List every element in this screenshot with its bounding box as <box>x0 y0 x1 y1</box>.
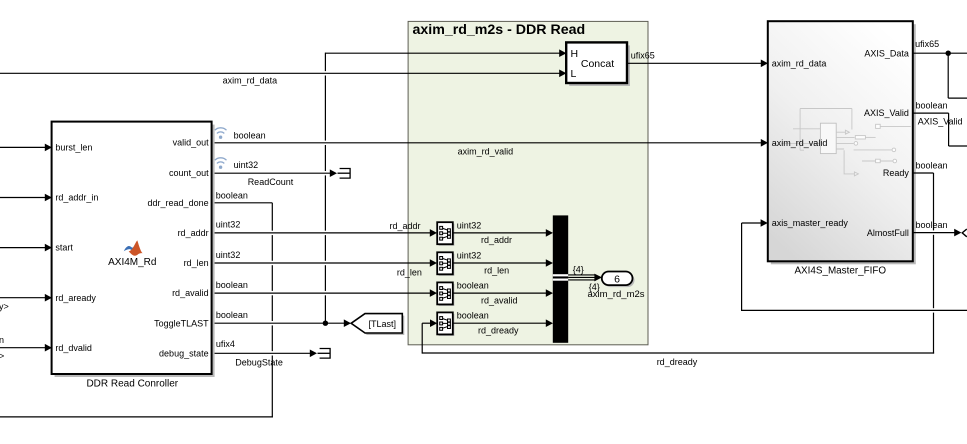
svg-text:ddr_read_done: ddr_read_done <box>148 198 209 208</box>
wire axim_rd_data into Concat L <box>0 70 566 86</box>
signal conversion block rd_len (U-conv2) <box>437 252 454 275</box>
viewer icon DebugState <box>318 349 331 359</box>
bus creator bar <box>553 215 568 342</box>
svg-text:Ready: Ready <box>883 168 910 178</box>
svg-text:uint32: uint32 <box>457 221 482 231</box>
wire AXIS_Data out with branch <box>913 39 967 98</box>
wire rd_dready back to conv4 <box>422 319 934 367</box>
svg-text:AXIS_Valid: AXIS_Valid <box>864 108 909 118</box>
svg-text:boolean: boolean <box>457 281 489 291</box>
svg-text:axim_rd_valid: axim_rd_valid <box>772 138 828 148</box>
MATLAB function icon AXI4M_Rd <box>108 240 156 267</box>
area axim_rd_m2s - DDR Read <box>408 21 648 344</box>
streaming badge count_out <box>215 158 227 169</box>
svg-text:boolean: boolean <box>216 280 248 290</box>
svg-text:rd_dvalid: rd_dvalid <box>55 343 92 353</box>
svg-text:boolean: boolean <box>916 160 948 170</box>
svg-text:axim_rd_valid: axim_rd_valid <box>458 147 514 157</box>
svg-text:rd_avalid: rd_avalid <box>172 288 209 298</box>
svg-text:AXIS_Valid: AXIS_Valid <box>918 117 963 127</box>
wire count_out to ReadCount viewer <box>212 169 337 177</box>
svg-text:rd_dready: rd_dready <box>478 326 519 336</box>
svg-text:uint32: uint32 <box>457 251 482 261</box>
wire ddr_read_done down and left <box>0 191 273 418</box>
svg-text:L: L <box>571 68 577 80</box>
block DDR Read Conroller <box>52 122 215 377</box>
wire rd_len <box>212 250 437 278</box>
svg-text:6: 6 <box>614 273 620 285</box>
wire burst_len input <box>0 144 52 152</box>
svg-text:Concat: Concat <box>581 58 614 70</box>
svg-text:valid_out: valid_out <box>173 138 210 148</box>
svg-text:boolean: boolean <box>234 131 266 141</box>
svg-text:AXI4M_Rd: AXI4M_Rd <box>108 257 156 268</box>
svg-text:debug_state: debug_state <box>159 348 209 358</box>
svg-text:rd_avalid: rd_avalid <box>481 295 518 305</box>
svg-text:ufix4: ufix4 <box>216 339 235 349</box>
svg-text:n: n <box>0 335 4 345</box>
wire ToggleTLAST to From tag <box>212 310 351 327</box>
wire rd_dvalid input <box>0 335 52 361</box>
svg-text:ToggleTLAST: ToggleTLAST <box>154 318 209 328</box>
svg-text:rd_aready: rd_aready <box>55 293 96 303</box>
wire Concat output to FIFO axim_rd_data <box>627 50 768 67</box>
svg-text:count_out: count_out <box>169 168 209 178</box>
wire conv4 to bus <box>453 319 553 335</box>
svg-text:rd_addr_in: rd_addr_in <box>55 193 98 203</box>
wire AXIS_Valid out <box>913 101 967 146</box>
wire start input <box>0 244 52 252</box>
svg-text:boolean: boolean <box>916 101 948 111</box>
wire axis_master_ready feedback <box>742 219 967 311</box>
wire Ready down to rd_dready <box>913 160 948 353</box>
svg-text:DDR Read Conroller: DDR Read Conroller <box>86 379 178 390</box>
From tag [TLast] <box>351 314 404 335</box>
svg-text:rd_len: rd_len <box>397 268 422 278</box>
wire conv3 to bus <box>453 289 553 305</box>
svg-text:rd_addr: rd_addr <box>481 235 512 245</box>
svg-text:rd_addr: rd_addr <box>178 228 209 238</box>
bus wire to goto 6 <box>568 265 645 301</box>
junction dot TLast branch <box>323 321 328 326</box>
svg-text:axim_rd_data: axim_rd_data <box>223 76 278 86</box>
wire valid_out to axim_rd_valid <box>212 139 768 157</box>
svg-text:rd_len: rd_len <box>484 265 509 275</box>
svg-text:rd_addr: rd_addr <box>390 221 421 231</box>
svg-text:start: start <box>55 243 73 253</box>
streaming badge valid_out <box>215 128 227 139</box>
svg-text:burst_len: burst_len <box>55 143 92 153</box>
wire conv1 to bus <box>453 229 553 245</box>
svg-text:boolean: boolean <box>457 311 489 321</box>
svg-text:H: H <box>571 48 579 60</box>
svg-text:axis_master_ready: axis_master_ready <box>772 218 849 228</box>
svg-text:ufix65: ufix65 <box>631 50 655 60</box>
block AXI4S_Master_FIFO <box>768 21 916 264</box>
signal conversion block rd_dready (U-conv4) <box>437 312 454 336</box>
svg-text:[TLast]: [TLast] <box>369 319 397 329</box>
wire conv2 to bus <box>453 259 553 275</box>
svg-text:AXI4S_Master_FIFO: AXI4S_Master_FIFO <box>794 266 886 277</box>
wire rd_addr <box>212 220 437 237</box>
svg-text:ReadCount: ReadCount <box>248 177 294 187</box>
wire rd_avalid <box>212 280 437 297</box>
svg-text:axim_rd_data: axim_rd_data <box>772 58 827 68</box>
wire rd_aready input <box>0 294 52 312</box>
signal conversion block rd_avalid (U-conv3) <box>437 282 454 306</box>
svg-text:AlmostFull: AlmostFull <box>867 228 909 238</box>
svg-text:axim_rd_m2s: axim_rd_m2s <box>588 289 645 300</box>
svg-text:boolean: boolean <box>916 220 948 230</box>
svg-text:boolean: boolean <box>216 310 248 320</box>
svg-text:DebugState: DebugState <box>235 358 283 368</box>
wire TLast branch up to Concat H <box>325 49 566 323</box>
signal conversion block rd_addr (U-conv1) <box>437 222 454 246</box>
svg-text:uint32: uint32 <box>216 250 241 260</box>
block Concat <box>566 42 630 86</box>
svg-text:uint32: uint32 <box>216 220 241 230</box>
FIFO port labels <box>772 48 910 237</box>
svg-text:ufix65: ufix65 <box>915 39 939 49</box>
svg-text:y>: y> <box>0 302 9 312</box>
svg-text:uint32: uint32 <box>234 160 259 170</box>
svg-text:AXIS_Data: AXIS_Data <box>864 48 909 58</box>
wire rd_addr_in input <box>0 194 52 202</box>
FIFO content preview sketch <box>781 109 911 176</box>
svg-text:>: > <box>0 351 4 361</box>
wire debug_state to DebugState viewer <box>212 339 317 368</box>
viewer icon ReadCount <box>338 169 351 179</box>
svg-text:rd_dready: rd_dready <box>657 357 698 367</box>
goto tag 6 <box>602 272 635 288</box>
svg-text:boolean: boolean <box>216 191 248 201</box>
wire AlmostFull out <box>913 220 967 237</box>
svg-text:axim_rd_m2s - DDR Read: axim_rd_m2s - DDR Read <box>413 22 586 38</box>
svg-text:rd_len: rd_len <box>184 258 209 268</box>
svg-text:{4}: {4} <box>573 265 584 275</box>
